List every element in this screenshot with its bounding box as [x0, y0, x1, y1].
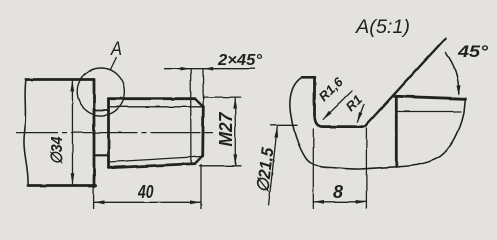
- arrow M27 bottom: [233, 154, 237, 165]
- detail fillet R1.6: [315, 115, 323, 127]
- centerline: [17, 132, 213, 134]
- arrow phi21.5 top: [274, 126, 278, 138]
- detail groove bottom: [323, 125, 363, 128]
- shaft bottom edge: [28, 184, 96, 187]
- svg-text:∅34: ∅34: [49, 136, 66, 164]
- svg-text:M27: M27: [216, 112, 236, 147]
- groove top line: [94, 109, 109, 111]
- dimension M27 top extension: [203, 96, 241, 98]
- svg-text:8: 8: [333, 182, 343, 202]
- detail top stub: [302, 76, 315, 79]
- dimension 40 line: [94, 201, 201, 203]
- shaft top edge: [26, 78, 94, 81]
- detail step face: [313, 77, 316, 114]
- dimension phi21.5 line: [269, 127, 278, 206]
- arrow 8 right: [356, 200, 367, 204]
- arrow 8 left: [314, 200, 325, 204]
- leader R1: [358, 104, 365, 122]
- arrow 40 left: [94, 200, 105, 204]
- svg-text:45°: 45°: [457, 42, 488, 61]
- detail thread minor line: [397, 111, 462, 113]
- detail thread flank: [395, 97, 398, 167]
- dimension M27 line: [234, 97, 236, 166]
- arrow phi34 top: [70, 80, 74, 91]
- arrow 45 arc: [457, 85, 461, 96]
- dimension 2x45 line: [165, 68, 255, 70]
- leader to label A: [111, 58, 117, 70]
- svg-text:2×45°: 2×45°: [217, 52, 263, 69]
- arrow 40 right: [190, 200, 201, 204]
- detail freehand boundary: [290, 77, 465, 169]
- svg-text:40: 40: [137, 182, 153, 202]
- arrow 2x45 right: [203, 67, 213, 71]
- dimension phi21.5 extension: [271, 124, 297, 126]
- detail fillet R1: [362, 125, 367, 127]
- thread top chamfer: [195, 99, 203, 107]
- dimension 2x45 right extension: [202, 69, 204, 107]
- leader R1.6: [323, 91, 352, 119]
- dimension 8 left extension: [312, 129, 314, 209]
- arrow R1: [357, 112, 363, 123]
- chamfer edge line / 2x45 left extension: [190, 69, 192, 164]
- detail circle A: [77, 68, 125, 116]
- shaft break line: [24, 80, 28, 186]
- dimension 45 arc: [446, 53, 459, 94]
- arrow R1.6: [323, 111, 332, 120]
- thread bottom outer line: [109, 164, 196, 168]
- arrow phi34 bottom: [71, 173, 75, 184]
- dimension 40 left extension: [93, 187, 95, 209]
- thread top minor line: [109, 106, 203, 108]
- thread bottom chamfer: [195, 156, 203, 164]
- detail 45 chamfer line: [367, 39, 446, 125]
- dimension phi34 line: [71, 81, 73, 185]
- svg-text:A(5:1): A(5:1): [355, 17, 410, 38]
- thread top outer line: [109, 97, 196, 100]
- svg-text:A: A: [110, 39, 122, 60]
- dimension 8 right extension: [365, 128, 367, 209]
- groove bottom line: [94, 154, 109, 156]
- thread start face: [107, 99, 110, 168]
- dimension M27 bottom extension: [200, 165, 241, 167]
- detail thread crest line: [394, 96, 466, 99]
- dimension 8 line: [313, 201, 366, 203]
- arrow 2x45 left: [181, 67, 191, 71]
- thread end face: [201, 107, 204, 157]
- dimension 40 right extension: [200, 165, 202, 209]
- arrow M27 top: [233, 97, 237, 108]
- shaft step face: [93, 80, 96, 187]
- thread bottom minor line: [109, 157, 202, 163]
